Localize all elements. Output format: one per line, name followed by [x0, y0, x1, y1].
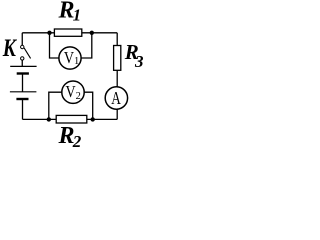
- junction dot top-right: [90, 31, 94, 35]
- resistor R2 box: [56, 115, 87, 123]
- battery cell1 short plate: [17, 72, 29, 74]
- wire V1 left branch: [50, 33, 60, 58]
- svg-text:V: V: [64, 49, 74, 67]
- svg-text:V: V: [66, 83, 76, 101]
- battery cell2 long plate: [10, 91, 37, 93]
- svg-text:K: K: [2, 34, 18, 62]
- wire top horizontal: [22, 32, 117, 34]
- wire V2 right branch: [84, 92, 93, 119]
- wire bottom horizontal: [23, 118, 118, 120]
- battery cell1 long plate: [10, 65, 36, 67]
- wire V1 right branch: [81, 33, 92, 58]
- wire right column upper: [116, 33, 118, 46]
- wire R3 to ammeter: [116, 70, 118, 87]
- junction dot top-left: [47, 31, 51, 35]
- junction dot bottom-right: [91, 117, 95, 121]
- svg-text:2: 2: [72, 132, 82, 150]
- switch K terminal upper: [21, 45, 24, 48]
- svg-text:1: 1: [73, 5, 82, 24]
- resistor R3 box: [114, 46, 121, 71]
- wire left column lower: [22, 100, 24, 119]
- battery cell2 short plate: [16, 98, 28, 100]
- wire ammeter to bottom: [116, 109, 118, 119]
- svg-text:A: A: [111, 89, 121, 108]
- ammeter A circle: [105, 87, 127, 109]
- switch K blade: [24, 48, 31, 59]
- junction dot bottom-left: [47, 117, 51, 121]
- wire between battery cells: [22, 75, 24, 92]
- wire left column upper: [21, 33, 23, 46]
- voltmeter V2 circle: [62, 81, 84, 103]
- wire switch to battery: [21, 60, 23, 66]
- voltmeter V1 circle: [59, 47, 81, 69]
- switch K terminal lower: [21, 57, 24, 60]
- wire V2 left branch: [49, 92, 62, 119]
- resistor R1 box: [54, 29, 81, 36]
- svg-text:1: 1: [74, 56, 79, 67]
- svg-text:3: 3: [134, 52, 144, 71]
- svg-text:2: 2: [76, 91, 81, 102]
